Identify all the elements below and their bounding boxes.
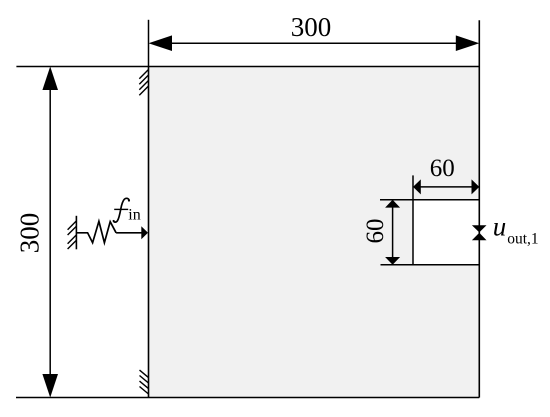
svg-text:300: 300 — [291, 12, 332, 42]
design domain (gray square) — [149, 67, 480, 398]
spring wall hatch 4 — [68, 240, 77, 249]
left dimension line 300 — [49, 86, 51, 378]
notch left edge + extension — [412, 175, 414, 264]
output marker upper triangle — [472, 225, 487, 232]
bottom-left support hatch 3 — [140, 381, 149, 389]
f ball terminals — [128, 200, 130, 202]
left dimension arrowhead top — [42, 67, 58, 91]
spring wall line — [75, 216, 77, 250]
f crossbar — [114, 208, 128, 210]
svg-text:300: 300 — [15, 213, 45, 254]
svg-text:in: in — [128, 206, 140, 223]
bottom-left support hatch 2 — [140, 376, 149, 384]
vertical 60 arrowhead top — [385, 200, 400, 208]
top-left support hatch 2 — [139, 75, 148, 84]
svg-text:out,1: out,1 — [507, 231, 538, 248]
top-left support hatch 4 — [139, 86, 148, 95]
spring wall hatch 2 — [68, 226, 77, 235]
notch top edge + extension — [380, 199, 479, 201]
top dimension line 300 — [168, 42, 459, 44]
vertical 60 arrowhead bottom — [385, 257, 400, 265]
output marker lower triangle — [472, 233, 487, 240]
input force arrowhead — [141, 226, 148, 239]
domain bottom edge — [149, 397, 480, 399]
vertical 60 dimension line — [392, 205, 394, 260]
label f_in : italic f drawn as path — [114, 198, 130, 222]
top dimension arrowhead right — [456, 35, 480, 51]
top dimension extension line left — [148, 20, 150, 67]
spring zigzag — [76, 221, 116, 242]
top-left support hatch 1 — [139, 70, 148, 79]
svg-text:60: 60 — [362, 219, 389, 244]
notch bottom edge + extension — [381, 264, 480, 266]
bottom-left support hatch 4 — [140, 387, 149, 395]
horizontal 60 arrowhead right — [472, 179, 480, 194]
horizontal 60 dimension line — [418, 186, 474, 188]
top dimension arrowhead left — [149, 35, 173, 51]
left dimension extension line top — [16, 66, 148, 68]
input force arrow line — [116, 232, 142, 234]
horizontal 60 arrowhead left — [413, 179, 421, 194]
left dimension arrowhead bottom — [42, 374, 58, 398]
svg-text:60: 60 — [430, 155, 455, 182]
domain top edge — [149, 66, 480, 68]
top-left support hatch 3 — [139, 81, 148, 90]
bottom-left support hatch 1 — [140, 370, 149, 378]
spring wall hatch 3 — [68, 235, 77, 244]
spring wall hatch 1 — [68, 221, 77, 230]
domain right edge (with top extension line) — [478, 20, 480, 397]
output notch (white 60x60 square) — [413, 200, 479, 265]
left dimension extension line bottom — [16, 397, 149, 399]
domain left edge — [148, 67, 150, 398]
svg-text:u: u — [493, 211, 507, 241]
